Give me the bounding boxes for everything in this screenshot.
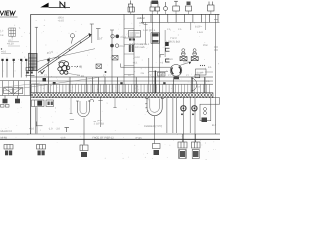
svg-text:45: 45 xyxy=(79,65,83,69)
svg-text:CV-1: CV-1 xyxy=(121,36,127,39)
svg-text:+2.0: +2.0 xyxy=(29,128,35,131)
svg-text:P•ID: P•ID xyxy=(168,58,173,61)
svg-text:Q=120 m3/h: Q=120 m3/h xyxy=(132,46,146,49)
svg-text:8 SP: 8 SP xyxy=(195,26,201,29)
svg-text:+8.20: +8.20 xyxy=(7,43,14,46)
svg-text:4 1: 4 1 xyxy=(206,80,210,83)
svg-text:3 T: 3 T xyxy=(99,38,103,41)
svg-text:4 1: 4 1 xyxy=(208,66,212,69)
svg-text:(TYP): (TYP) xyxy=(135,137,142,140)
svg-text:1 1/2" SS: 1 1/2" SS xyxy=(94,123,105,126)
svg-text:5 SP @ 2.5: 5 SP @ 2.5 xyxy=(143,29,156,32)
svg-text:-10.0: -10.0 xyxy=(60,136,66,139)
svg-text:+14.5: +14.5 xyxy=(58,19,65,22)
svg-text:MHW: MHW xyxy=(1,137,8,140)
svg-text:∅50: ∅50 xyxy=(203,44,208,47)
svg-text:MLLW 0.0: MLLW 0.0 xyxy=(1,130,13,133)
svg-text:L 3x3: L 3x3 xyxy=(197,31,203,34)
svg-text:-2.0: -2.0 xyxy=(56,128,61,131)
svg-text:SUMP: SUMP xyxy=(197,72,204,75)
svg-text:FENDER (TYP): FENDER (TYP) xyxy=(144,125,162,128)
svg-text:∅80: ∅80 xyxy=(160,73,166,76)
svg-text:TYP C: TYP C xyxy=(170,37,177,40)
svg-text:+6.0: +6.0 xyxy=(1,50,7,53)
svg-text:P-3: P-3 xyxy=(196,86,200,89)
svg-text:CV-2: CV-2 xyxy=(120,45,126,48)
svg-text:B-2: B-2 xyxy=(212,124,217,127)
svg-text:FACE OF PIER: FACE OF PIER xyxy=(93,137,111,140)
svg-text:-12: -12 xyxy=(110,136,114,139)
svg-text:+4.1: +4.1 xyxy=(133,62,139,65)
svg-text:1-5/8 2L 3x3: 1-5/8 2L 3x3 xyxy=(166,41,180,44)
svg-text:-1.0: -1.0 xyxy=(48,128,53,131)
svg-text:+4.10: +4.10 xyxy=(134,56,141,59)
svg-text:+4.5: +4.5 xyxy=(137,17,143,20)
